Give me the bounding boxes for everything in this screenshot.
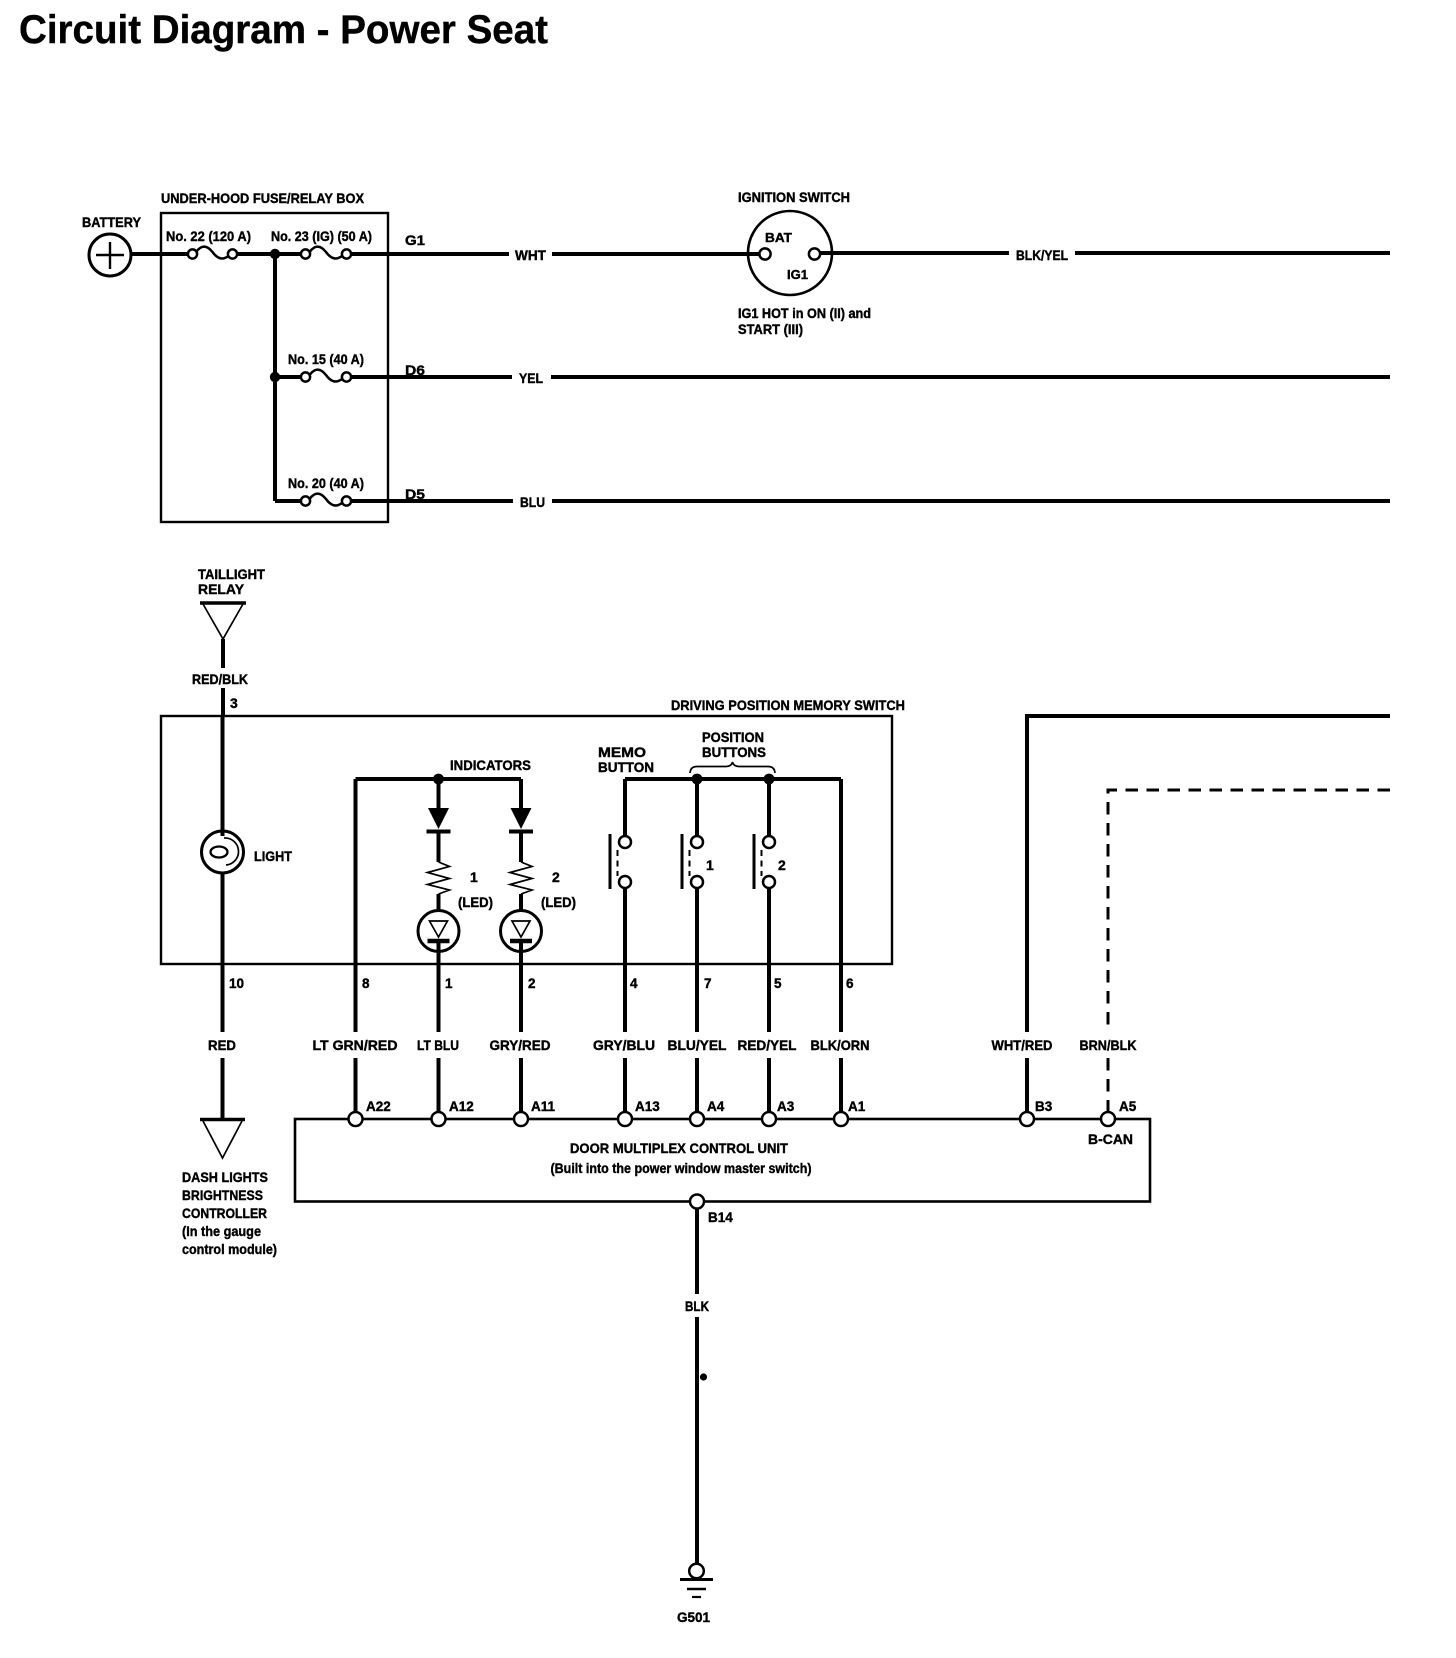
svg-text:10: 10: [229, 976, 244, 991]
buttons bus: [625, 777, 841, 781]
svg-text:B3: B3: [1035, 1099, 1053, 1114]
svg-text:YEL: YEL: [519, 371, 543, 386]
svg-text:control module): control module): [182, 1242, 277, 1257]
wire pin 6: [839, 779, 843, 964]
svg-text:A5: A5: [1119, 1099, 1137, 1114]
svg-text:LT BLU: LT BLU: [417, 1038, 459, 1053]
svg-text:8: 8: [362, 976, 370, 991]
wire WHT fuse23 to ignition switch: [351, 232, 759, 263]
svg-text:TAILLIGHT: TAILLIGHT: [198, 567, 266, 582]
svg-text:IG1 HOT in ON (II) and: IG1 HOT in ON (II) and: [738, 306, 871, 321]
node indicators junction: [433, 774, 444, 785]
svg-text:RED/BLK: RED/BLK: [192, 672, 248, 687]
wire A22 LT GRN/RED: [313, 964, 398, 1112]
svg-text:POSITION: POSITION: [702, 730, 764, 745]
wire YEL: [351, 362, 1390, 386]
wire pin10 RED to controller: [208, 964, 236, 1118]
LED 2: [501, 894, 542, 964]
memo button switch: [610, 779, 631, 964]
svg-text:RED/YEL: RED/YEL: [738, 1038, 797, 1053]
svg-text:BLK/ORN: BLK/ORN: [811, 1038, 870, 1053]
wire BLK to ground: [685, 1209, 709, 1565]
svg-text:(LED): (LED): [541, 895, 576, 910]
svg-text:INDICATORS: INDICATORS: [450, 758, 531, 773]
svg-text:1: 1: [470, 869, 478, 885]
svg-text:A22: A22: [366, 1099, 391, 1114]
svg-text:A12: A12: [449, 1099, 474, 1114]
svg-text:(Built into the power window m: (Built into the power window master swit…: [551, 1161, 812, 1176]
pin A3: [762, 1099, 795, 1126]
svg-text:LT GRN/RED: LT GRN/RED: [313, 1038, 398, 1053]
svg-text:3: 3: [230, 695, 238, 711]
svg-text:BLK: BLK: [685, 1299, 709, 1314]
memo button label: [598, 745, 654, 775]
svg-text:4: 4: [630, 976, 638, 991]
svg-text:Circuit Diagram - Power Seat: Circuit Diagram - Power Seat: [19, 8, 548, 52]
wire A12 LT BLU: [417, 964, 459, 1112]
svg-text:DASH LIGHTS: DASH LIGHTS: [182, 1170, 268, 1185]
wire A4 BLU/YEL: [668, 964, 727, 1112]
svg-text:A3: A3: [777, 1099, 795, 1114]
indicators bus: [356, 758, 532, 779]
svg-text:5: 5: [774, 976, 782, 991]
svg-text:BLU: BLU: [520, 495, 545, 510]
pin A1: [834, 1099, 866, 1126]
svg-text:DOOR MULTIPLEX CONTROL UNIT: DOOR MULTIPLEX CONTROL UNIT: [570, 1140, 788, 1156]
wire vertical bus inside fuse box: [273, 254, 277, 501]
wire battery to fuse No.22: [131, 252, 188, 256]
wire fuse22 to fuse23: [237, 252, 301, 256]
svg-text:1: 1: [706, 857, 714, 873]
svg-text:BATTERY: BATTERY: [82, 214, 142, 230]
taillight relay: [198, 567, 266, 639]
resistor 2 (LED): [510, 862, 576, 910]
svg-text:(LED): (LED): [458, 895, 493, 910]
wire B3 WHT/RED from top right: [992, 716, 1391, 1112]
svg-text:BRIGHTNESS: BRIGHTNESS: [182, 1188, 263, 1203]
LED 1: [418, 894, 459, 964]
svg-text:No. 22 (120 A): No. 22 (120 A): [166, 229, 251, 244]
svg-text:BLU/YEL: BLU/YEL: [668, 1038, 727, 1053]
indicator diode 1: [427, 779, 451, 862]
wire A11 GRY/RED: [490, 964, 551, 1112]
svg-text:No. 23 (IG) (50 A): No. 23 (IG) (50 A): [271, 229, 372, 244]
door multiplex control unit box: [295, 1119, 1150, 1202]
pin A12: [432, 1099, 474, 1126]
svg-text:DRIVING POSITION MEMORY SWITCH: DRIVING POSITION MEMORY SWITCH: [671, 697, 905, 713]
pin A11: [514, 1099, 556, 1126]
svg-text:1: 1: [445, 976, 453, 991]
resistor 1 (LED): [428, 862, 494, 910]
svg-text:B-CAN: B-CAN: [1088, 1132, 1133, 1147]
battery: [82, 214, 142, 276]
svg-text:BRN/BLK: BRN/BLK: [1080, 1038, 1137, 1053]
wire pin 8: [354, 779, 358, 964]
pin B14: [690, 1195, 733, 1226]
svg-text:UNDER-HOOD FUSE/RELAY BOX: UNDER-HOOD FUSE/RELAY BOX: [161, 190, 365, 206]
pin A13: [618, 1099, 660, 1126]
pin A4: [690, 1099, 725, 1126]
wire BLK/YEL ignition to right: [820, 248, 1390, 263]
ground G501: [677, 1564, 713, 1625]
svg-text:BLK/YEL: BLK/YEL: [1016, 248, 1068, 263]
svg-text:WHT: WHT: [515, 248, 547, 263]
svg-text:7: 7: [704, 976, 712, 991]
svg-text:A4: A4: [707, 1099, 725, 1114]
svg-text:No. 15 (40 A): No. 15 (40 A): [288, 352, 364, 367]
ignition switch: [738, 190, 871, 337]
node fuse15 junction: [270, 372, 280, 382]
svg-text:RED: RED: [208, 1038, 236, 1053]
svg-text:(In the gauge: (In the gauge: [182, 1224, 261, 1239]
svg-text:A1: A1: [848, 1099, 866, 1114]
svg-text:IG1: IG1: [787, 267, 808, 282]
svg-text:G501: G501: [677, 1609, 710, 1625]
svg-text:START (III): START (III): [738, 322, 803, 337]
position buttons label and brace: [690, 730, 775, 773]
dash lights brightness controller: [182, 1120, 277, 1258]
position button switch 1: [682, 779, 714, 964]
svg-text:RELAY: RELAY: [198, 582, 244, 597]
pin A5: [1101, 1099, 1137, 1126]
node position button 2 junction: [764, 774, 775, 785]
svg-text:LIGHT: LIGHT: [254, 849, 293, 864]
node fuse box junction: [270, 249, 280, 259]
svg-text:MEMO: MEMO: [598, 745, 646, 760]
pin number labels: [229, 976, 854, 991]
svg-text:WHT/RED: WHT/RED: [992, 1038, 1053, 1053]
svg-text:2: 2: [552, 869, 560, 885]
wire A5 BRN/BLK dashed B-CAN: [1080, 790, 1391, 1112]
fuse No.23 (IG) (50 A): [271, 229, 372, 259]
svg-text:BAT: BAT: [765, 230, 792, 245]
svg-text:A13: A13: [635, 1099, 660, 1114]
svg-text:BUTTON: BUTTON: [598, 760, 654, 775]
svg-text:6: 6: [846, 976, 854, 991]
pin B3: [1020, 1099, 1053, 1126]
wire indicator 2 branch: [519, 779, 523, 810]
wire A13 GRY/BLU: [593, 964, 655, 1112]
position button switch 2: [754, 779, 786, 964]
fuse No.20 (40 A): [275, 476, 364, 506]
svg-text:B14: B14: [708, 1210, 733, 1225]
node position button 1 junction: [692, 774, 703, 785]
pin A22: [349, 1099, 391, 1126]
svg-text:G1: G1: [405, 232, 425, 248]
node stray junction dot: [700, 1373, 707, 1380]
driving position memory switch box: [161, 697, 905, 964]
light bulb: [202, 716, 293, 964]
wire BLU: [351, 486, 1390, 510]
svg-text:GRY/BLU: GRY/BLU: [593, 1038, 655, 1053]
fuse No.15 (40 A): [275, 352, 364, 382]
svg-text:2: 2: [778, 857, 786, 873]
svg-text:GRY/RED: GRY/RED: [490, 1038, 551, 1053]
svg-text:A11: A11: [531, 1099, 556, 1114]
svg-text:IGNITION SWITCH: IGNITION SWITCH: [738, 190, 850, 205]
svg-text:2: 2: [528, 976, 536, 991]
svg-text:CONTROLLER: CONTROLLER: [182, 1206, 267, 1221]
fuse No.22 (120 A): [166, 229, 251, 259]
svg-text:BUTTONS: BUTTONS: [702, 745, 766, 760]
svg-text:No. 20 (40 A): No. 20 (40 A): [288, 476, 364, 491]
wire A1 BLK/ORN: [811, 964, 870, 1112]
wire RED/BLK relay to memory switch pin 3: [192, 639, 248, 716]
wire A3 RED/YEL: [738, 964, 797, 1112]
indicator diode 2: [509, 808, 533, 862]
under-hood fuse/relay box: [161, 190, 388, 522]
